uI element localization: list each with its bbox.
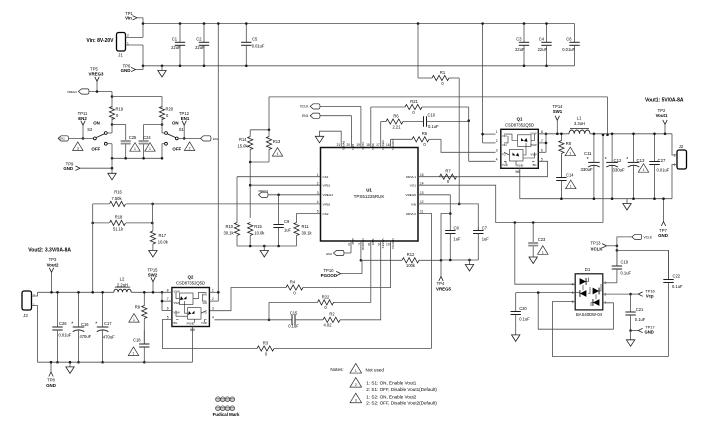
svg-text:*: * [626, 157, 628, 163]
svg-text:8: 8 [167, 288, 169, 292]
svg-text:1uF: 1uF [454, 236, 462, 241]
svg-text:CS1: CS1 [323, 175, 329, 179]
capacitor C11 330uF [593, 134, 595, 163]
svg-text:8: 8 [368, 243, 370, 247]
capacitor C18 [143, 330, 145, 344]
capacitor C15 0.1uF [269, 319, 292, 321]
wire Q2 PGND stem [191, 327, 193, 363]
wire VREG5 branch to R12/TP4 [441, 214, 450, 261]
note triangle 1 at R13 [272, 148, 282, 157]
svg-text:2: 2 [355, 383, 357, 387]
pad Q2 PGND [190, 329, 195, 331]
wire TGR line to Q2 [215, 319, 270, 321]
svg-text:C12: C12 [614, 158, 622, 163]
wire VCLK to C22 [617, 250, 669, 279]
wire DRVH1 riser [390, 139, 392, 147]
svg-text:2: S2: OFF, Disable Vout2(Defa: 2: S2: OFF, Disable Vout2(Default) [366, 401, 437, 406]
wire CS1 line to U1 [237, 176, 321, 178]
capacitor C19 0.1uF [616, 250, 618, 266]
wire EN2 flag to pin6 [344, 252, 351, 254]
svg-text:VFB1: VFB1 [323, 184, 331, 188]
svg-text:OFF: OFF [91, 146, 100, 151]
svg-text:VSW: VSW [174, 301, 181, 305]
svg-text:0.1uF: 0.1uF [621, 270, 632, 275]
wire VO1 to D1 pin4 [515, 223, 575, 285]
svg-text:TGR: TGR [201, 321, 207, 325]
svg-text:R5: R5 [422, 131, 428, 136]
wire VCLK flag to pin19 [320, 105, 361, 107]
svg-text:7: 7 [358, 243, 360, 247]
svg-text:R21: R21 [410, 99, 418, 104]
svg-text:R9: R9 [135, 304, 141, 309]
wire SW1 rail [538, 133, 569, 135]
wire C19 to D1 pin3 [603, 282, 617, 284]
resistor R15 10.0k [248, 223, 253, 236]
svg-text:VO1: VO1 [410, 184, 416, 188]
note triangle 1 at C14 [566, 180, 576, 189]
wire Vout1 GND rail [520, 198, 672, 200]
svg-text:1: 1 [149, 147, 151, 151]
net flag EN2 input [58, 136, 69, 141]
svg-text:22uF: 22uF [515, 47, 525, 52]
svg-text:C4: C4 [539, 37, 545, 42]
svg-text:C8: C8 [454, 226, 460, 231]
svg-text:19: 19 [356, 143, 360, 147]
resistor R19 0 [109, 107, 114, 120]
svg-text:Vout2: 3.3V/0A-8A: Vout2: 3.3V/0A-8A [28, 247, 71, 253]
svg-text:6: 6 [541, 148, 543, 152]
svg-text:22uF: 22uF [195, 45, 205, 50]
capacitor C16 470uF [78, 292, 80, 327]
svg-text:R17: R17 [159, 233, 167, 238]
wire divider to Vout2 rail [92, 204, 94, 293]
svg-text:1: 1 [569, 152, 571, 156]
capacitor C20 0.1uF [515, 293, 517, 312]
wire Vout1 to J2 pin2 [672, 134, 677, 155]
wire Vout1 sense tie and 5V feed [606, 134, 609, 137]
svg-text:BAS40DW-04: BAS40DW-04 [576, 312, 603, 317]
svg-text:S2: S2 [87, 127, 93, 132]
svg-text:GND: GND [121, 68, 131, 73]
svg-text:VREG3: VREG3 [67, 90, 77, 94]
wire to VFB1 [249, 162, 251, 218]
svg-text:3: 3 [77, 146, 79, 150]
svg-text:PGOOD: PGOOD [361, 239, 365, 251]
svg-text:J1: J1 [118, 53, 123, 58]
resistor R6 2.21 [381, 121, 386, 123]
resistor R21 0 [371, 106, 405, 108]
svg-text:R14: R14 [239, 137, 247, 142]
svg-text:470uF: 470uF [80, 334, 92, 339]
svg-text:VREG5: VREG5 [436, 287, 451, 292]
svg-text:C17: C17 [104, 321, 112, 326]
svg-text:2: 2 [212, 297, 214, 301]
capacitor C7 1uF [477, 227, 479, 231]
svg-text:L1: L1 [577, 115, 582, 120]
svg-text:C6: C6 [566, 37, 572, 42]
testpoint TP4 VREG5 [439, 276, 443, 281]
svg-text:0.01uF: 0.01uF [59, 333, 72, 338]
net flag EN1 switch side [201, 136, 212, 141]
ground divider bar [263, 246, 265, 251]
svg-text:TP2: TP2 [658, 108, 666, 113]
wire D1 pin5 to pin1 loop [538, 293, 613, 330]
capacitor C27 0.01uF [654, 134, 656, 162]
svg-text:DRVH1: DRVH1 [391, 140, 395, 151]
svg-text:C20: C20 [519, 306, 527, 311]
svg-text:R3: R3 [263, 340, 269, 345]
wire R1 to U1 VIN [458, 78, 460, 204]
capacitor C26 0.01uF [57, 292, 59, 327]
wire J3 pin2 to Vout2 rail [32, 292, 38, 296]
wire EN1 flag to pin20 [320, 115, 352, 117]
svg-text:VCLK: VCLK [591, 247, 604, 252]
note triangle 1 at C24 [145, 143, 155, 152]
connector J1 [117, 33, 126, 52]
wire Vin drop to Q2 [217, 24, 219, 302]
svg-text:100k: 100k [406, 263, 416, 268]
svg-text:*: * [605, 157, 607, 163]
note triangle 1 at C23 [538, 246, 548, 255]
svg-text:C10: C10 [428, 112, 436, 117]
capacitor C25 [112, 124, 126, 126]
wire divider ground bar [237, 245, 297, 247]
svg-text:Not used: Not used [366, 367, 385, 372]
svg-text:TP4: TP4 [437, 281, 445, 286]
node Vin rail joint [142, 22, 145, 25]
svg-text:R20: R20 [166, 107, 174, 112]
svg-text:C24: C24 [143, 135, 151, 140]
wire TGR link to Q1 pin4 [469, 160, 496, 162]
svg-text:PGOOD: PGOOD [321, 273, 337, 278]
svg-text:VIN: VIN [411, 202, 416, 206]
capacitor C21 0.1uF [630, 294, 632, 312]
ground PWPD [315, 136, 323, 143]
wire J1 pin1 to GND rail [126, 44, 144, 46]
wire D1 pin6 to C22 bottom [552, 302, 668, 357]
resistor R11 30.1k [296, 213, 298, 222]
resistor R3 0 [257, 346, 274, 351]
svg-text:2: 2 [496, 139, 498, 143]
capacitor C4 22uF [546, 24, 548, 43]
svg-text:2: S1: OFF, Disable Vout1(Defa: 2: S1: OFF, Disable Vout1(Default) [366, 387, 437, 392]
note triangle 1 legend [350, 363, 362, 373]
svg-text:R4: R4 [290, 279, 296, 284]
svg-text:VBST2: VBST2 [381, 239, 385, 249]
svg-text:1: 1 [133, 351, 135, 355]
capacitor C22 0.1uF [668, 250, 670, 279]
svg-text:VIN: VIN [202, 292, 207, 296]
svg-text:10.0k: 10.0k [158, 239, 169, 244]
wire C8 C7 ground link [441, 259, 478, 261]
resistor R5 0 [391, 138, 412, 140]
resistor R13 [268, 130, 270, 137]
svg-text:EN2: EN2 [78, 116, 87, 121]
svg-text:20: 20 [346, 143, 350, 147]
note triangle 1 at C13 [638, 164, 648, 173]
wire D1 pin5 branch [516, 292, 576, 294]
svg-text:VBST1: VBST1 [381, 140, 385, 150]
capacitor C5 0.01uF [245, 24, 247, 43]
svg-text:1: 1 [643, 168, 645, 172]
svg-text:0.01uF: 0.01uF [252, 44, 265, 49]
svg-text:Notes:: Notes: [330, 367, 343, 372]
capacitor C1 22uF [179, 24, 181, 43]
capacitor C10 0.1uF [403, 121, 424, 123]
svg-text:5: 5 [317, 210, 319, 214]
svg-text:17: 17 [376, 143, 380, 147]
connector J3 [22, 291, 32, 310]
svg-text:4: 4 [317, 200, 319, 204]
svg-text:2.2uH: 2.2uH [117, 282, 128, 287]
svg-text:Vin: 8V-20V: Vin: 8V-20V [86, 38, 114, 44]
svg-text:C2: C2 [196, 37, 202, 42]
svg-text:C16: C16 [81, 322, 89, 327]
svg-text:4: 4 [496, 157, 498, 161]
svg-text:15.0k: 15.0k [237, 144, 248, 149]
svg-text:1: 1 [133, 318, 135, 322]
capacitor C17 470uF [102, 292, 104, 327]
svg-text:Fudical Mark: Fudical Mark [213, 412, 240, 417]
wire Q1 VSW tie [538, 142, 546, 144]
wire R16 right to R18 right [152, 204, 154, 223]
capacitor C24 [144, 124, 162, 126]
wire PGOOD riser [360, 241, 362, 260]
svg-text:CS2: CS2 [323, 212, 329, 216]
svg-text:3: 3 [496, 148, 498, 152]
resistor R8 [560, 134, 562, 141]
svg-text:7: 7 [167, 297, 169, 301]
capacitor C2 22uF [203, 24, 205, 43]
wire DRVL2 line [418, 213, 431, 348]
svg-text:EN2: EN2 [60, 137, 66, 141]
svg-text:Q1: Q1 [517, 116, 523, 121]
svg-text:Vout1: 5V/0A-8A: Vout1: 5V/0A-8A [645, 98, 684, 104]
ground R17 [149, 251, 157, 258]
svg-text:2: 2 [317, 182, 319, 186]
svg-text:VREG3: VREG3 [323, 193, 334, 197]
resistor R22 0 [318, 300, 334, 305]
svg-text:D1: D1 [585, 267, 591, 272]
wire VCLK node down [616, 246, 618, 266]
svg-text:C3: C3 [516, 37, 522, 42]
svg-text:1: 1 [134, 147, 136, 151]
svg-text:VSW: VSW [530, 152, 537, 156]
svg-text:0.1uF: 0.1uF [635, 317, 646, 322]
wire switch block ground bar [112, 157, 162, 159]
svg-text:VSW: VSW [530, 143, 537, 147]
svg-text:C18: C18 [133, 338, 141, 343]
svg-text:BG: BG [533, 163, 537, 167]
wire Vin drop to Q1 [482, 24, 484, 143]
svg-text:CSD87352Q5D: CSD87352Q5D [176, 281, 205, 286]
svg-text:*: * [95, 322, 97, 328]
svg-text:1uF: 1uF [284, 228, 292, 233]
note triangle 2 legend [350, 378, 362, 388]
svg-text:EN1: EN1 [302, 114, 309, 118]
svg-text:VCLK: VCLK [361, 142, 365, 151]
svg-text:9: 9 [378, 243, 380, 247]
svg-text:0.1uF: 0.1uF [288, 324, 299, 329]
svg-text:Vout1: Vout1 [656, 113, 668, 118]
wire PWPD to ground [320, 131, 342, 147]
ground Vout2 bar [69, 362, 71, 367]
svg-text:C25: C25 [129, 135, 137, 140]
resistor R4 0 [286, 285, 303, 290]
resistor R20 0 [159, 107, 164, 120]
svg-text:5: 5 [167, 316, 169, 320]
svg-text:VIN: VIN [202, 301, 207, 305]
svg-text:1: 1 [33, 303, 35, 307]
wire DRVH2 riser to R4 [303, 241, 391, 288]
svg-text:0.01uF: 0.01uF [657, 168, 670, 173]
svg-text:S1: S1 [179, 127, 185, 132]
resistor R10 30.1k [236, 177, 238, 223]
svg-text:330uF: 330uF [613, 168, 626, 173]
note triangle 1 at R8 [565, 147, 575, 156]
svg-text:1: S2: ON, Enable Vout2: 1: S2: ON, Enable Vout2 [366, 395, 416, 400]
capacitor C13 [633, 134, 635, 163]
wire Q2 VSW tie [162, 300, 172, 302]
svg-text:DRVH2: DRVH2 [391, 239, 395, 250]
svg-text:0.1uF: 0.1uF [428, 124, 439, 129]
svg-text:GND: GND [63, 166, 73, 171]
svg-text:VCLK: VCLK [300, 105, 309, 109]
svg-text:EN2: EN2 [351, 239, 355, 245]
svg-text:DRVL2: DRVL2 [406, 212, 416, 216]
note triangle 1 at C18 [128, 347, 138, 356]
svg-text:R10: R10 [225, 224, 233, 229]
ground switch block [111, 168, 113, 173]
ground C8 C7 [469, 260, 471, 265]
wire SW2 rail [131, 291, 172, 293]
svg-text:GND: GND [658, 233, 668, 238]
svg-text:VIN: VIN [502, 143, 507, 147]
svg-text:R8: R8 [566, 141, 572, 146]
wire S1 common to EN1 flag [178, 137, 200, 139]
svg-text:VIN: VIN [502, 134, 507, 138]
capacitor C9 1uF [278, 195, 280, 225]
capacitor C8 1uF [449, 229, 451, 231]
svg-text:470uF: 470uF [103, 335, 115, 340]
svg-text:3: 3 [212, 307, 214, 311]
svg-text:PGND: PGND [187, 322, 195, 326]
svg-text:TP7: TP7 [659, 228, 667, 233]
wire Vin rail [143, 23, 575, 25]
wire SW1 riser [370, 107, 372, 148]
svg-text:BG: BG [174, 321, 178, 325]
svg-text:R16: R16 [114, 189, 122, 194]
svg-text:51.1k: 51.1k [113, 227, 124, 232]
svg-text:C1: C1 [172, 37, 178, 42]
svg-text:2.21: 2.21 [393, 124, 402, 129]
net flag VCLK at D1 [617, 237, 632, 246]
wire VBST1 riser [380, 122, 382, 148]
svg-text:VSW: VSW [174, 311, 181, 315]
svg-text:C7: C7 [482, 226, 488, 231]
svg-text:30.1k: 30.1k [223, 230, 234, 235]
note triangle 1 at C25 [130, 143, 140, 152]
svg-text:*: * [71, 322, 73, 328]
wire VREG5 to C8 [418, 195, 450, 229]
svg-text:6: 6 [167, 307, 169, 311]
note triangle 2 at S1 [184, 142, 194, 151]
wire Vout1 rail [590, 133, 672, 135]
svg-text:1: 1 [355, 369, 357, 373]
wire GND rail [143, 65, 575, 67]
svg-text:DRVL1: DRVL1 [406, 175, 416, 179]
svg-text:22uF: 22uF [538, 47, 548, 52]
svg-text:TG: TG [502, 152, 506, 156]
svg-text:TP13: TP13 [590, 241, 601, 246]
svg-text:7: 7 [541, 139, 543, 143]
resistor R2 4.02 [323, 317, 340, 322]
svg-text:PWPD: PWPD [341, 141, 345, 151]
svg-text:3.3uH: 3.3uH [574, 121, 585, 126]
capacitor C14 [560, 155, 562, 178]
svg-text:C11: C11 [584, 151, 592, 156]
svg-text:3: 3 [317, 191, 319, 195]
svg-text:VFB2: VFB2 [323, 202, 331, 206]
svg-text:SW1: SW1 [553, 109, 563, 114]
svg-text:TP8: TP8 [47, 378, 55, 383]
resistor R14 15.0k [250, 129, 269, 131]
svg-text:VSW: VSW [174, 290, 181, 294]
svg-text:Vcp: Vcp [646, 293, 654, 298]
svg-text:1: S1: ON, Enable Vout1: 1: S1: ON, Enable Vout1 [366, 381, 416, 386]
svg-text:EN2: EN2 [326, 252, 332, 256]
note triangle 1 at R9 [129, 314, 139, 323]
svg-text:1: 1 [277, 152, 279, 156]
svg-text:R19: R19 [116, 107, 124, 112]
wire D1 pin2 to Vcp [603, 293, 631, 295]
svg-text:18: 18 [366, 143, 370, 147]
svg-text:CSD87352Q5D: CSD87352Q5D [505, 123, 534, 128]
node GND rail joint [142, 65, 145, 68]
svg-text:C14: C14 [566, 173, 574, 178]
svg-text:GND: GND [645, 329, 654, 334]
testpoint TP17 GND [638, 328, 643, 332]
svg-text:2: 2 [189, 146, 191, 150]
svg-text:R22: R22 [322, 294, 330, 299]
testpoint TP16 Vcp [638, 292, 643, 296]
svg-text:21: 21 [337, 143, 341, 147]
svg-text:R2: R2 [329, 312, 335, 317]
wire R3 to DRVL2 riser [274, 348, 431, 350]
svg-text:0.1uF: 0.1uF [672, 284, 683, 289]
svg-text:C23: C23 [538, 237, 546, 242]
wire Vout1 sense line [268, 97, 270, 130]
svg-text:C19: C19 [621, 260, 629, 265]
svg-text:C15: C15 [290, 311, 298, 316]
svg-text:R15: R15 [254, 224, 262, 229]
svg-text:C27: C27 [658, 158, 666, 163]
svg-text:U1: U1 [366, 188, 372, 193]
svg-text:R12: R12 [407, 252, 415, 257]
svg-text:0.01uF: 0.01uF [562, 47, 575, 52]
wire R5 to Q1 TG [441, 139, 496, 152]
svg-text:VREG3: VREG3 [89, 71, 104, 76]
wire Q2 VIN stubs [209, 291, 218, 293]
svg-text:C26: C26 [59, 321, 67, 326]
svg-text:R1: R1 [440, 70, 446, 75]
wire Q1 BG to DRVL1 [418, 161, 548, 176]
svg-text:4: 4 [572, 282, 574, 286]
note triangle 3 legend [350, 393, 362, 403]
ground C23 [529, 257, 537, 264]
resistor R1 0 [417, 24, 419, 79]
svg-text:L2: L2 [120, 277, 125, 282]
